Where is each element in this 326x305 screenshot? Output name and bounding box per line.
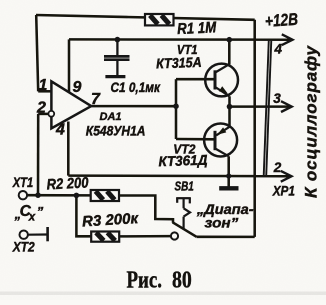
- node VT1 collector junction: [227, 37, 233, 43]
- ground under VT2: [219, 186, 238, 190]
- terminal XT2: [20, 231, 28, 239]
- svg-text:С1 0,1мк: С1 0,1мк: [111, 80, 162, 95]
- pin 4 arrow: [282, 34, 293, 45]
- switch SB1 lever: [173, 222, 197, 237]
- wire pin4 drop: [67, 122, 70, 176]
- wire long vertical from R1 to switch: [253, 20, 256, 237]
- resistor R2: [91, 190, 119, 201]
- svg-text:х: х: [28, 212, 36, 224]
- wire pin2 riser: [37, 114, 40, 195]
- svg-text:К548УН1А: К548УН1А: [86, 124, 146, 139]
- switch SB1 button actuator: [176, 198, 190, 230]
- svg-text:4: 4: [55, 122, 65, 139]
- svg-text:4: 4: [274, 41, 283, 56]
- svg-text:7: 7: [91, 91, 101, 108]
- label Cx: [14, 203, 44, 224]
- wire bottom common rail: [68, 174, 289, 177]
- svg-text:R3 200к: R3 200к: [82, 210, 140, 230]
- transistor VT1: [205, 64, 238, 97]
- svg-text:ХТ1: ХТ1: [12, 174, 33, 190]
- op-amp DA1: [48, 81, 91, 128]
- wire +12V rail: [69, 38, 290, 41]
- svg-text:R2 200: R2 200: [46, 174, 89, 193]
- wire pin1 input: [38, 90, 52, 93]
- terminal XT1: [19, 191, 27, 199]
- svg-text:К осциллографу: К осциллографу: [302, 44, 321, 198]
- wire feedback riser left: [36, 15, 38, 91]
- wire VT2 base lead: [176, 138, 215, 141]
- svg-text:2: 2: [36, 100, 46, 117]
- svg-text:КТ315А: КТ315А: [156, 54, 202, 72]
- wire VT1 base lead: [176, 78, 215, 81]
- resistor R1: [145, 14, 174, 25]
- svg-text:2: 2: [273, 160, 282, 175]
- svg-text:1: 1: [39, 77, 48, 94]
- svg-text:зон”: зон”: [205, 215, 239, 231]
- wire op-amp output: [91, 105, 176, 108]
- svg-text:”: ”: [37, 204, 44, 219]
- wire R3 right lead: [119, 235, 171, 238]
- svg-text:DA1: DA1: [100, 111, 122, 123]
- wire pin3 output: [230, 105, 290, 108]
- svg-text:+12В: +12В: [264, 10, 298, 31]
- wire pin9 riser: [68, 39, 71, 92]
- svg-text:9: 9: [73, 79, 82, 96]
- connector XP1 bars: [264, 40, 272, 176]
- svg-text:ХТ2: ХТ2: [12, 239, 35, 255]
- pin 3 arrow: [281, 101, 292, 112]
- svg-text:КТ361Д: КТ361Д: [158, 152, 208, 170]
- wire base bus vertical: [175, 79, 178, 139]
- wire VT2 collector drop: [227, 156, 230, 186]
- svg-text:80: 80: [172, 267, 192, 293]
- switch SB1 contact (R3 side, open circle): [171, 232, 178, 239]
- resistor R3: [91, 232, 119, 242]
- node XT1 riser junction: [35, 192, 41, 198]
- node emitters junction: [227, 104, 233, 110]
- wire pin2 input: [38, 113, 48, 116]
- wire top feedback rail: [36, 15, 255, 20]
- scan streak under caption: [0, 292, 326, 296]
- wire emitters junction drop: [228, 96, 231, 127]
- node R2/R3 split junction: [74, 193, 80, 199]
- wire R3 left branch: [76, 195, 91, 236]
- capacitor C1: [104, 40, 130, 76]
- XT2 end bar: [46, 227, 49, 241]
- transistor VT2: [204, 124, 237, 157]
- svg-text:SB1: SB1: [175, 179, 194, 194]
- svg-text:3: 3: [273, 91, 281, 106]
- svg-text:R1 1М: R1 1М: [177, 19, 218, 38]
- node base bus junction: [173, 103, 179, 109]
- wire VT1 collector riser: [228, 40, 231, 65]
- node C1 top junction: [115, 37, 121, 43]
- node ground rail junction: [226, 173, 231, 178]
- wire XT2 lead: [28, 233, 47, 235]
- pin 2 arrow: [281, 171, 292, 182]
- wire switch common: [197, 236, 255, 239]
- wire XT1 to R2: [27, 194, 91, 197]
- ground under C1: [105, 75, 125, 78]
- svg-text:ХР1: ХР1: [272, 184, 295, 199]
- wire R2 right lead to contact: [119, 196, 173, 223]
- svg-text:Рис.: Рис.: [127, 267, 163, 293]
